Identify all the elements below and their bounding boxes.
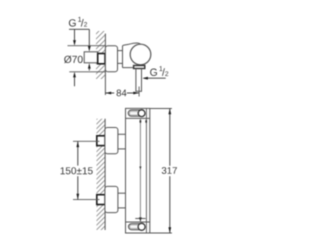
knob circle (thermostat handle end) bbox=[130, 44, 151, 65]
wall face line (front view) bbox=[104, 119, 106, 230]
dim 84 left arrowhead at wall face bbox=[106, 92, 112, 95]
inlet pipe (G 1/2 thread), side view bbox=[84, 52, 97, 63]
in-wall square 2 bbox=[97, 195, 105, 205]
spout stadium bbox=[129, 224, 144, 230]
tick heads below cap divider bbox=[139, 120, 141, 123]
small arrow blob on center line bbox=[139, 167, 141, 170]
Ø70 extension line bottom (escutcheon bottom extended) bbox=[69, 71, 105, 73]
arrow pointing up to inlet pipe bottom bbox=[88, 63, 91, 69]
top cap stadium bbox=[128, 110, 144, 116]
in-wall square 1 bbox=[97, 136, 105, 146]
dim 150 line segments bbox=[77, 141, 79, 165]
dim 84 right arrowhead at outlet axis bbox=[133, 92, 139, 95]
label Ø70 bbox=[64, 56, 83, 64]
label G 1/2 (top) bbox=[69, 17, 87, 27]
shower outlet flange bbox=[134, 66, 145, 69]
dim 317 top arrowhead bbox=[168, 109, 171, 115]
wall hatch (front view) bbox=[92, 110, 106, 248]
escutcheon 2 (front) bbox=[105, 186, 118, 212]
dim 84 right extension line (outlet axis) bbox=[138, 87, 140, 97]
Ø70 extension line top (escutcheon top extended) bbox=[68, 45, 106, 47]
dim 84 line segments bbox=[105, 92, 114, 94]
Ø70 upper arrow (outside, points down) bbox=[74, 29, 76, 40]
dim 317 line segments bbox=[169, 109, 171, 166]
escutcheon (side view) bbox=[105, 46, 117, 72]
dim 150 top arrowhead bbox=[76, 142, 79, 148]
body column outer bbox=[126, 108, 150, 233]
extension line 2 bbox=[73, 199, 100, 201]
spout circle bbox=[138, 223, 145, 230]
extension line 1 bbox=[73, 140, 100, 142]
inner right edge line bbox=[145, 108, 147, 233]
bottom arrow on center line bbox=[135, 218, 145, 220]
Ø70 lower arrow (outside, points up) bbox=[73, 72, 76, 78]
bottom spout divider bbox=[126, 221, 150, 223]
body housing (side view) bbox=[123, 43, 141, 68]
extension bottom bbox=[150, 232, 172, 234]
wall face line (top view), extended down as extension for 84 dim bbox=[104, 34, 106, 96]
spout inner pill bbox=[130, 225, 139, 229]
dim 150 bottom arrowhead bbox=[76, 194, 79, 200]
dim 317 bottom arrowhead bbox=[168, 227, 171, 233]
nipple 2 (lower inlet connector) bbox=[118, 192, 126, 194]
label 84 bbox=[117, 90, 127, 97]
extension top bbox=[150, 108, 172, 110]
inner center line bbox=[139, 118, 141, 222]
top cap inner pill bbox=[129, 111, 138, 115]
top cap knob circle bbox=[138, 110, 145, 117]
in-wall union square bbox=[98, 54, 105, 64]
leader arrowhead pointing left to outlet pipe bbox=[142, 77, 148, 80]
leader underline of G 1/2 top label bbox=[69, 28, 89, 30]
top cap divider bbox=[126, 117, 150, 119]
nipple between escutcheon and body bbox=[117, 50, 122, 52]
wall hatch (top view) bbox=[92, 24, 106, 93]
leader underline of G 1/2 right label bbox=[144, 77, 166, 79]
escutcheon 1 (front) bbox=[105, 128, 118, 154]
label 317 bbox=[162, 167, 177, 174]
label G 1/2 (right of outlet) bbox=[150, 66, 168, 76]
G1/2 leader drop with arrow pointing down to inlet pipe top bbox=[88, 29, 90, 46]
nipple 1 (upper inlet connector) bbox=[118, 133, 126, 135]
label 150±15 bbox=[61, 167, 93, 174]
outlet pipe bbox=[135, 69, 137, 92]
